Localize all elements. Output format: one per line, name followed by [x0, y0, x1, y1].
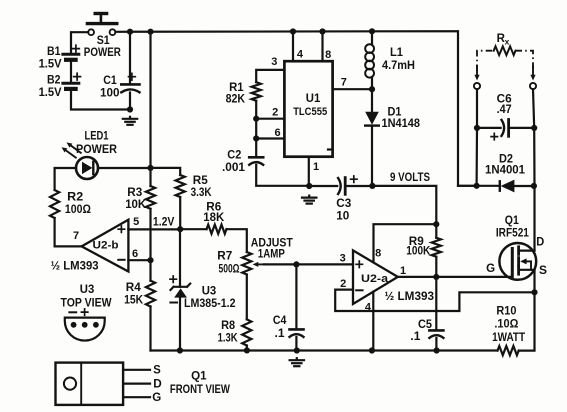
wiper arrow R7	[253, 262, 266, 267]
label 3 (U1)	[271, 56, 277, 68]
label 4 (U2-a)	[365, 301, 372, 313]
svg-text:4: 4	[297, 48, 304, 60]
svg-text:U3: U3	[202, 286, 217, 298]
label 4.7mH (L1)	[382, 60, 415, 72]
svg-text:L1: L1	[390, 47, 404, 59]
wire U2-a pin4 to rail	[372, 292, 374, 351]
svg-text:15K: 15K	[124, 294, 144, 306]
wire U1 pin3 to R1	[256, 70, 284, 82]
svg-text:5: 5	[133, 216, 139, 228]
resistor Rx (dashed links)	[477, 46, 533, 71]
svg-text:1N4001: 1N4001	[485, 165, 526, 177]
node C6 row left junction	[474, 125, 480, 131]
op-amp U2-b	[82, 220, 129, 272]
wire pin1 node to C3	[309, 185, 337, 187]
node D2 row left junction	[474, 183, 480, 189]
inductor L1	[365, 31, 374, 89]
svg-text:½ LM393: ½ LM393	[385, 291, 435, 303]
label TOP VIEW	[61, 298, 112, 310]
wire D2 row left	[458, 185, 500, 187]
ground (below C4)	[290, 358, 304, 366]
wire U1 pin7 to L1	[333, 88, 372, 90]
svg-text:.10Ω: .10Ω	[494, 319, 518, 331]
label U2-b	[93, 239, 119, 251]
capacitor C2	[249, 157, 307, 186]
node pin4-rail junction	[369, 347, 375, 353]
wire U2-b pin6 to rail	[128, 259, 150, 261]
label + (B2)	[74, 73, 81, 80]
node L1 top junction	[369, 28, 375, 34]
label 82K (R1)	[226, 94, 246, 106]
svg-text:2: 2	[340, 278, 346, 290]
node S1-rail junction	[147, 29, 153, 35]
wire 9V node to R9 column	[372, 186, 436, 224]
capacitor C5	[429, 330, 443, 350]
label 7 (U1)	[341, 76, 347, 88]
wire rail top to LED row	[149, 32, 151, 186]
wire U1 pin6 stub	[256, 137, 284, 139]
op-amp U2-a	[353, 250, 398, 304]
svg-text:1.2V: 1.2V	[153, 217, 175, 229]
node D1-9V junction	[369, 183, 375, 189]
wire U1 pin4 stub	[292, 31, 294, 61]
wire right terminal to C6 row	[533, 89, 534, 128]
svg-text:1WATT: 1WATT	[492, 332, 525, 344]
label R7	[217, 250, 232, 262]
label U1	[306, 93, 321, 105]
svg-text:G: G	[486, 263, 495, 275]
svg-text:U1: U1	[306, 93, 321, 105]
Q1 lead S	[123, 369, 150, 371]
diode D2	[500, 180, 535, 193]
svg-text:R5: R5	[193, 175, 209, 187]
svg-text:FRONT VIEW: FRONT VIEW	[170, 384, 230, 396]
label R5	[193, 175, 209, 187]
label 5 (U2-b)	[133, 216, 139, 228]
svg-text:R4: R4	[126, 282, 142, 294]
wire U1 pin8 stub	[321, 31, 323, 61]
wire 1.2V node to R6	[180, 228, 206, 230]
wire U2-a pin2 feedback	[335, 290, 534, 311]
svg-text:100K: 100K	[406, 246, 431, 258]
svg-text:7: 7	[341, 76, 347, 88]
svg-text:C5: C5	[418, 319, 433, 331]
label R9	[409, 236, 424, 248]
label R8	[221, 320, 236, 332]
svg-text:B2: B2	[47, 75, 61, 87]
svg-text:TOP VIEW: TOP VIEW	[61, 298, 112, 310]
label LM385-1.2	[184, 298, 236, 310]
label 2 (U2-a)	[340, 278, 346, 290]
label U2-a	[361, 273, 389, 285]
ground (below U1 pin1)	[302, 196, 316, 204]
svg-text:2: 2	[272, 106, 278, 118]
label 4 (U1)	[297, 48, 304, 60]
svg-text:R1: R1	[229, 82, 244, 94]
wire R2 to U2-b output	[55, 218, 81, 246]
label U3 (zener)	[202, 286, 217, 298]
label D2	[499, 154, 513, 166]
resistor R1	[252, 82, 261, 101]
svg-text:3: 3	[340, 253, 346, 265]
terminal arrow left	[474, 66, 479, 81]
svg-text:100: 100	[100, 87, 120, 99]
label 10K (R3)	[125, 199, 147, 211]
resistor R2	[50, 190, 59, 218]
svg-text:U3: U3	[80, 284, 95, 296]
wire R8 to bottom rail	[246, 346, 248, 351]
svg-text:½ LM393: ½ LM393	[51, 260, 99, 272]
wire R10 to source corner	[519, 292, 535, 350]
resistor R6	[207, 225, 227, 234]
label 1.2V	[153, 217, 175, 229]
svg-text:10: 10	[336, 211, 349, 223]
label C2	[227, 149, 241, 161]
node C5-rail junction	[434, 347, 440, 353]
resistor R5	[176, 175, 185, 197]
capacitor C6	[502, 120, 535, 137]
svg-text:S: S	[539, 265, 547, 277]
label R6	[206, 201, 221, 213]
svg-text:1: 1	[400, 265, 406, 277]
node wiper-C4 junction	[293, 261, 299, 267]
svg-text:S: S	[153, 365, 161, 377]
label ADJUST	[251, 237, 293, 249]
wire B2 to ground node	[71, 91, 127, 110]
svg-text:82K: 82K	[226, 94, 246, 106]
svg-text:U2-b: U2-b	[93, 239, 119, 251]
node 1.2V reference junction	[177, 226, 183, 232]
label C1	[103, 75, 117, 87]
capacitor C3	[338, 178, 372, 195]
label 15K (R4)	[124, 294, 144, 306]
label 1 (U2-a)	[400, 265, 406, 277]
wire R7 to R8	[246, 275, 248, 320]
label 1.5V (B1)	[39, 59, 62, 71]
label U3 (top view)	[80, 284, 95, 296]
svg-text:1.5V: 1.5V	[39, 59, 62, 71]
wire R5 to 1.2V node	[179, 197, 181, 229]
node output-R9 junction	[433, 274, 439, 280]
svg-text:6: 6	[132, 248, 138, 260]
svg-text:R10: R10	[496, 306, 516, 318]
svg-text:POWER: POWER	[76, 144, 118, 156]
label - (U2-a)	[356, 289, 362, 291]
label 1WATT (R10)	[492, 332, 525, 344]
label R2	[67, 192, 83, 204]
diode D1	[365, 89, 379, 186]
node pin8-rail junction	[319, 28, 325, 34]
label 100K (R9)	[406, 246, 431, 258]
label + (C6)	[491, 133, 497, 139]
node pin1-ground junction	[306, 183, 312, 189]
label IRF521	[496, 228, 530, 240]
label .10ohm (R10)	[494, 319, 518, 331]
Q1 package outline	[56, 363, 124, 405]
LED1 symbol	[76, 157, 98, 179]
transistor Q1 IRF521	[499, 243, 536, 280]
label 3 (U2-a)	[340, 253, 346, 265]
svg-text:.1: .1	[275, 328, 286, 340]
svg-text:10K: 10K	[125, 199, 147, 211]
svg-text:1N4148: 1N4148	[382, 118, 421, 130]
svg-text:C3: C3	[336, 198, 351, 210]
wire C6 left down to D2 row	[476, 128, 479, 186]
svg-text:18K: 18K	[203, 212, 225, 224]
label D1	[388, 106, 403, 118]
wire U1 pin1 stub	[308, 157, 310, 186]
label TLC555	[293, 106, 327, 118]
Q1 package hole	[64, 378, 76, 390]
wire pin2 to pin6 node	[255, 119, 257, 139]
svg-text:4.7mH: 4.7mH	[382, 60, 415, 72]
wire output node to C5	[435, 277, 437, 329]
wire R1 to pin2 node	[255, 101, 257, 119]
Q1 package divider	[80, 363, 82, 405]
node pin4-rail junction	[290, 28, 296, 34]
label + (U2-b)	[118, 226, 124, 232]
label Q1 (front view)	[191, 370, 207, 382]
node pin8-R9 junction	[433, 221, 439, 227]
battery B2	[63, 83, 79, 89]
mark inside U1	[328, 148, 331, 150]
node D2 row right junction	[531, 183, 537, 189]
wire bottom rail	[151, 349, 498, 351]
label 8 (U1)	[325, 49, 331, 61]
label S1	[97, 35, 111, 47]
node source-feedback junction	[531, 289, 537, 295]
label 1/2 LM393 (U2-a)	[385, 291, 435, 303]
label 2 (U1)	[272, 106, 278, 118]
label 3.3K (R5)	[191, 187, 213, 199]
svg-text:Q1: Q1	[191, 370, 207, 382]
label C6	[497, 94, 512, 106]
label D (front view)	[153, 379, 162, 391]
svg-text:TLC555: TLC555	[293, 106, 327, 118]
capacitor C1	[121, 84, 139, 109]
svg-text:Q1: Q1	[505, 215, 520, 227]
label R1	[229, 82, 244, 94]
label L1	[390, 47, 404, 59]
IC U1 box	[284, 61, 332, 157]
label C4	[273, 315, 287, 327]
svg-text:D: D	[536, 237, 544, 249]
label C5	[418, 319, 433, 331]
label 1/2 LM393 (U2-b)	[51, 260, 99, 272]
wire top rail	[115, 31, 474, 186]
wire left terminal to C6 row	[476, 89, 478, 128]
label 10 (C3)	[336, 211, 349, 223]
label .1 (C4)	[275, 328, 286, 340]
label S (front view)	[153, 365, 161, 377]
svg-text:.001: .001	[222, 162, 246, 174]
resistor R9	[432, 224, 441, 277]
switch S1 pushbutton	[87, 14, 116, 36]
svg-text:POWER: POWER	[84, 47, 122, 59]
wire U2-b pin5 to 1.2V node	[128, 228, 180, 230]
wire wiper node to C4	[295, 264, 297, 328]
resistor R8	[242, 319, 251, 345]
label LED1	[85, 131, 109, 143]
wire U2-a output to gate	[398, 276, 512, 278]
wire U1 pin2 stub	[256, 118, 284, 120]
node R1-pin2 junction	[253, 116, 259, 122]
battery B1	[63, 54, 79, 60]
label G (Q1)	[486, 263, 495, 275]
label 100ohm (R2)	[65, 204, 91, 216]
label 100 (C1)	[100, 87, 120, 99]
node C6 row right junction	[531, 125, 537, 131]
wire pin6 node to R4	[149, 260, 151, 280]
wire drain to D2 row	[533, 186, 535, 251]
svg-text:C2: C2	[227, 149, 241, 161]
label Rx	[497, 33, 510, 47]
svg-text:R8: R8	[221, 320, 236, 332]
label 18K (R6)	[203, 212, 225, 224]
svg-text:8: 8	[375, 248, 381, 260]
label 1N4148 (D1)	[382, 118, 421, 130]
Q1 lead D	[123, 383, 150, 385]
label D (Q1)	[536, 237, 544, 249]
wire C1 top	[129, 32, 131, 84]
resistor R4	[146, 281, 155, 307]
wire 1.2V node to zener	[179, 229, 181, 287]
wire LED left to R2	[55, 168, 76, 190]
svg-text:1.3K: 1.3K	[218, 333, 239, 345]
label .1 (C5)	[410, 331, 421, 343]
label 7 (U2-b)	[73, 230, 79, 242]
svg-text:S1: S1	[97, 35, 111, 47]
wire S1 to B1	[71, 32, 88, 52]
label 1N4001 (D2)	[485, 165, 526, 177]
U3 package outline	[65, 318, 105, 341]
svg-text:8: 8	[325, 49, 331, 61]
label + (C3)	[351, 176, 357, 182]
label - (U3 zener)	[170, 302, 177, 304]
node pin7-L1-D1 junction	[369, 86, 375, 92]
label Q1	[505, 215, 520, 227]
node LED-rail junction	[147, 165, 153, 171]
svg-text:1AMP: 1AMP	[258, 248, 285, 260]
node zener-rail junction	[177, 347, 183, 353]
node S1-C1 junction	[127, 29, 133, 35]
node R8-rail junction	[244, 347, 250, 353]
node C4-ground junction	[294, 347, 300, 353]
label POWER (LED1)	[76, 144, 118, 156]
wire LED row to R5	[151, 168, 181, 175]
svg-text:C4: C4	[273, 315, 287, 327]
terminal arrow right	[530, 66, 535, 81]
label .47 (C6)	[497, 104, 512, 116]
label 500ohm (R7)	[219, 263, 240, 275]
svg-text:G: G	[152, 392, 161, 404]
label 9 VOLTS	[390, 170, 430, 184]
svg-text:1.5V: 1.5V	[39, 87, 62, 99]
label 6 (U2-b)	[132, 248, 138, 260]
terminal circle right	[530, 83, 536, 89]
wire R7 wiper to U2-a pin3	[264, 263, 353, 265]
label 1.3K (R8)	[218, 333, 239, 345]
svg-text:D1: D1	[388, 106, 403, 118]
svg-text:9 VOLTS: 9 VOLTS	[390, 170, 430, 184]
svg-text:R2: R2	[67, 192, 83, 204]
svg-text:3: 3	[271, 56, 277, 68]
wire R6 to R7	[227, 229, 247, 252]
svg-text:LM385-1.2: LM385-1.2	[184, 298, 236, 310]
label - + (top view)	[69, 309, 87, 315]
label C3	[336, 198, 351, 210]
wire U2-a pin8	[374, 224, 437, 262]
wire B1 to B2	[70, 62, 72, 82]
capacitor C4	[290, 329, 304, 350]
svg-text:7: 7	[73, 230, 79, 242]
wire R3 to pin6 node	[149, 209, 151, 260]
label - (U2-b)	[118, 259, 124, 261]
svg-text:6: 6	[274, 127, 280, 139]
svg-text:R7: R7	[217, 250, 232, 262]
node C1-battery ground junction	[127, 106, 133, 112]
wire pin6 node to C2	[255, 139, 257, 157]
label 1AMP	[258, 248, 285, 260]
wire C6 row left	[477, 127, 501, 129]
wire C6 right down (rail)	[533, 128, 535, 186]
label B2	[47, 75, 61, 87]
potentiometer R7	[242, 252, 251, 275]
U3 package pins	[71, 322, 99, 328]
wire LED right to rail	[98, 167, 151, 169]
svg-text:.1: .1	[410, 331, 421, 343]
wire R4 to bottom rail	[149, 307, 151, 351]
label R10	[496, 306, 516, 318]
label + (B1)	[73, 45, 80, 52]
zener U3 LM385-1.2	[171, 284, 191, 351]
svg-text:x: x	[505, 37, 510, 47]
label POWER (S1)	[84, 47, 122, 59]
wire source down	[533, 270, 535, 293]
label + (U2-a)	[356, 261, 362, 267]
svg-text:U2-a: U2-a	[361, 273, 389, 285]
resistor R10	[498, 346, 519, 355]
svg-text:D: D	[153, 379, 162, 391]
label 8 (U2-a)	[375, 248, 381, 260]
ground (below C1)	[123, 117, 137, 125]
terminal circle left	[474, 83, 480, 89]
svg-text:500Ω: 500Ω	[219, 263, 240, 275]
label 1.5V (B2)	[39, 87, 62, 99]
node U2-b pin6 junction	[147, 257, 153, 263]
label B1	[47, 46, 61, 58]
node pin6 junction (U1)	[253, 135, 259, 141]
svg-text:IRF521: IRF521	[496, 228, 530, 240]
svg-text:C1: C1	[103, 75, 117, 87]
label 1 (U1)	[313, 161, 319, 173]
svg-text:LED1: LED1	[85, 131, 109, 143]
label + (U3 zener)	[170, 276, 176, 282]
label .001 (C2)	[222, 162, 246, 174]
svg-text:R3: R3	[127, 187, 142, 199]
svg-text:100Ω: 100Ω	[65, 204, 91, 216]
svg-text:.47: .47	[497, 104, 512, 116]
svg-text:1: 1	[313, 161, 319, 173]
label S (Q1)	[539, 265, 547, 277]
label 6 (U1)	[274, 127, 280, 139]
svg-text:3.3K: 3.3K	[191, 187, 213, 199]
label G (front view)	[152, 392, 161, 404]
svg-text:B1: B1	[47, 46, 61, 58]
LED1 arrows	[62, 142, 81, 157]
Q1 lead G	[123, 396, 150, 398]
label R4	[126, 282, 142, 294]
